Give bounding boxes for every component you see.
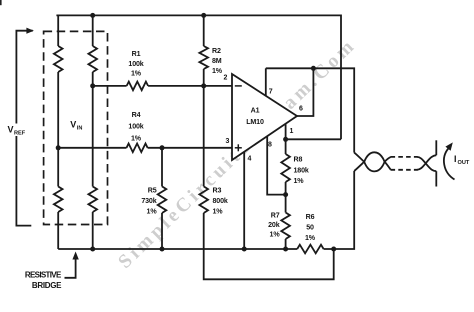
svg-text:1%: 1% [270, 231, 281, 239]
node: R6 right / loop [331, 247, 336, 252]
svg-text:R1: R1 [132, 50, 141, 58]
node: R1/R2/R3/pin2 [201, 83, 206, 88]
corner mark [0, 0, 2, 5]
svg-text:3: 3 [226, 138, 230, 145]
svg-text:RESISTIVE: RESISTIVE [25, 271, 62, 280]
svg-text:8: 8 [268, 142, 272, 149]
svg-text:LM10: LM10 [246, 118, 264, 126]
resistor R1 [127, 82, 149, 91]
resistor R5 [161, 148, 163, 187]
resistor bridge right-bottom [88, 187, 97, 213]
wire R4 row [58, 147, 126, 149]
resistor R3 [203, 86, 205, 186]
svg-text:R5: R5 [148, 186, 157, 194]
node: pin4 / bottom rail [242, 247, 247, 252]
pin 8 stub [267, 136, 285, 194]
node: pin6 / feedback [311, 66, 316, 71]
svg-text:1%: 1% [131, 134, 142, 142]
resistor R4 [127, 144, 148, 153]
node: R8 bottom / pin8 / R7 [283, 192, 288, 197]
wire right column middle [92, 72, 94, 187]
resistor R7 [285, 195, 287, 213]
svg-text:V: V [70, 120, 76, 130]
node: R5 top [160, 145, 165, 150]
twisted pair dashed bottom [391, 169, 418, 171]
svg-text:R4: R4 [132, 111, 141, 119]
Iout arrow arc [444, 149, 455, 180]
node: left column / R4 wire [56, 145, 61, 150]
resistor R6 [297, 245, 323, 254]
resistive bridge arrow [65, 257, 76, 278]
svg-text:A1: A1 [251, 107, 260, 115]
svg-text:R2: R2 [212, 47, 221, 55]
twisted pair conductor A [354, 153, 390, 172]
wire R1 row [93, 85, 127, 87]
twisted pair dashed top [391, 156, 418, 158]
pin 7 stub [265, 68, 267, 96]
svg-text:1%: 1% [212, 67, 223, 75]
resistor bridge right-top [92, 15, 94, 46]
svg-text:V: V [8, 125, 14, 135]
plus sign pin3 [235, 147, 242, 149]
node: pin1 / R8 [283, 137, 288, 142]
svg-text:1%: 1% [294, 177, 305, 185]
node: top rail / R2 [201, 13, 206, 18]
resistor R2 [203, 15, 205, 46]
twisted pair right top stub [435, 140, 437, 155]
op-amp A1 LM10 [232, 74, 297, 160]
wire feedback top [266, 68, 354, 152]
resistor bridge left-top [57, 15, 59, 46]
svg-text:50: 50 [306, 224, 314, 232]
svg-text:180k: 180k [294, 166, 309, 174]
wire R6 to twisted pair [324, 171, 355, 249]
svg-text:IN: IN [77, 126, 83, 132]
resistor bridge left-bottom [54, 187, 63, 213]
node: right column / R1 wire [90, 83, 95, 88]
wire pin1 feedback to right vertical [286, 138, 341, 140]
pin 1 stub [285, 124, 287, 140]
wire left column middle [57, 72, 59, 187]
svg-text:7: 7 [269, 89, 273, 96]
svg-text:6: 6 [299, 106, 303, 113]
svg-text:I: I [454, 154, 457, 164]
resistor R8 [285, 139, 287, 154]
svg-text:8M: 8M [212, 57, 222, 65]
node: top rail / right bridge column [90, 13, 95, 18]
svg-text:2: 2 [224, 75, 228, 82]
svg-text:REF: REF [14, 131, 26, 137]
twisted pair right X bottom-in [417, 155, 436, 170]
svg-text:1: 1 [290, 128, 294, 135]
svg-text:R6: R6 [306, 213, 315, 221]
svg-text:BRIDGE: BRIDGE [32, 281, 62, 290]
wire R3 bottom loop [204, 213, 334, 279]
pin 6 output [297, 68, 313, 116]
svg-text:R7: R7 [271, 211, 280, 219]
svg-text:OUT: OUT [458, 160, 470, 166]
svg-text:1%: 1% [131, 70, 142, 78]
label Vref [6, 124, 28, 137]
wire bottom rail [58, 248, 297, 250]
Vref bracket arrow [16, 31, 32, 226]
twisted pair right bottom stub [435, 171, 437, 186]
twisted pair right X top-in [417, 157, 436, 171]
svg-text:20k: 20k [268, 221, 280, 229]
node: R7 bottom [283, 247, 288, 252]
svg-text:R8: R8 [294, 156, 303, 164]
svg-text:R3: R3 [213, 186, 222, 194]
svg-text:4: 4 [248, 156, 252, 163]
svg-text:1%: 1% [147, 207, 158, 215]
svg-text:1%: 1% [213, 207, 224, 215]
svg-text:100k: 100k [128, 123, 143, 131]
node: right column / bottom rail [90, 247, 95, 252]
wire top rail [56, 15, 341, 139]
resistive bridge dashed box [44, 31, 108, 224]
node: R5 bottom [160, 247, 165, 252]
twisted pair conductor B [354, 152, 390, 171]
svg-text:800k: 800k [213, 197, 228, 205]
pin 4 stub [243, 152, 245, 249]
minus sign pin2 [235, 85, 242, 87]
svg-text:730k: 730k [141, 197, 156, 205]
svg-text:100k: 100k [128, 60, 143, 68]
svg-text:1%: 1% [305, 234, 316, 242]
